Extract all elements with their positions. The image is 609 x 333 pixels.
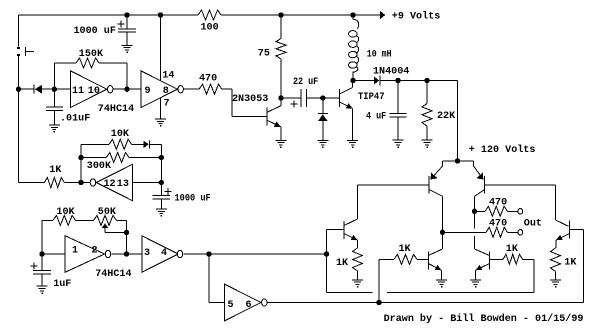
ground R11 (352, 280, 363, 288)
wire R5 top lead (426, 81, 428, 104)
label C3 polarity + (291, 101, 298, 108)
label 1000uF (lower) (175, 194, 211, 205)
svg-text:2N3053: 2N3053 (232, 94, 268, 105)
inductor L1 10mH (349, 15, 359, 81)
svg-text:1: 1 (72, 246, 78, 257)
wire Q6 collector drop upper (474, 196, 476, 228)
wire Q3 base (327, 229, 345, 231)
resistor R7 300K (106, 153, 129, 163)
label 22 uF (293, 77, 318, 88)
diode D1 cathode bar (33, 85, 35, 94)
transistor Q2 emitter (340, 102, 353, 109)
label pin 7 (164, 98, 170, 109)
node junction 470 upper (472, 209, 476, 213)
wire left rail lower (18, 56, 20, 183)
inverter U1C triangle (96, 164, 132, 201)
wire +9V top rail left (19, 14, 199, 16)
svg-text:Drawn by - Bill Bowden - 01/15: Drawn by - Bill Bowden - 01/15/99 (384, 313, 584, 325)
svg-text:TIP47: TIP47 (358, 92, 385, 103)
wire Q8 base (570, 230, 584, 303)
svg-text:74HC14: 74HC14 (95, 269, 131, 280)
ground Q1 emitter (275, 140, 286, 148)
transistor Q1 collector (267, 98, 281, 112)
label pin 6 (246, 300, 252, 311)
wire U1F output rail (268, 302, 584, 304)
wire C5 to gnd (160, 199, 162, 209)
wire D3 to HV rail (380, 80, 458, 82)
ground pin7 (155, 119, 166, 127)
ground Q2 emitter (347, 140, 358, 148)
wire C4 to gnd (397, 117, 399, 140)
wire Q1 emitter to gnd (280, 127, 282, 141)
label 75 (258, 49, 270, 60)
wire to C3 (281, 97, 301, 99)
label 4uF (366, 111, 386, 122)
label .01uF (60, 113, 90, 124)
label pin 10 (88, 86, 100, 97)
transistor Q8 bar (569, 221, 571, 239)
node junction .01uF (52, 87, 56, 91)
resistor R14 1K (394, 254, 417, 264)
node junction U1D in (40, 252, 44, 256)
wire C6 to gnd (41, 274, 43, 286)
svg-text:+ 120 Volts: + 120 Volts (469, 144, 536, 156)
wire R3 to Q1 base (222, 89, 267, 116)
wire D2 to ground (322, 121, 324, 140)
wire Q7 base lead (490, 258, 504, 260)
label 100 (201, 22, 219, 33)
wire Q5 collector drop (442, 196, 444, 249)
resistor R13 470 (486, 227, 508, 237)
transistor Q4 emitter (428, 264, 441, 271)
wire drive to Q3 base (326, 230, 328, 293)
wire R14 leads (379, 258, 428, 260)
svg-text:300K: 300K (87, 161, 112, 172)
label 10mH (367, 50, 392, 61)
wire Q2 emitter to gnd (352, 109, 354, 141)
wire D4 to right leg (150, 143, 162, 145)
label Out (524, 218, 542, 229)
wire 10K-C left leg (42, 220, 53, 254)
resistor R16 1K (551, 248, 561, 271)
label pin 3 (144, 248, 150, 259)
node junction C1 top (125, 13, 129, 17)
svg-text:.01uF: .01uF (60, 113, 90, 124)
transistor Q7 bar (489, 251, 491, 269)
svg-text:14: 14 (162, 71, 174, 82)
resistor R5 22K (422, 104, 432, 126)
label 1K (Q8) (564, 258, 577, 269)
transistor Q5 emitter arrow (431, 173, 438, 180)
transistor Q1 bar (266, 107, 268, 125)
wire R6 to D4 (132, 143, 144, 145)
inverter U1F bubble (262, 299, 267, 306)
capacitor C1 1000uF plates (118, 29, 136, 32)
wire 300K row right (129, 157, 161, 159)
label + 120 Volts (469, 144, 536, 156)
node junction R22K (425, 78, 429, 82)
inverter U1B triangle (141, 71, 177, 108)
inverter U1B bubble (178, 86, 183, 93)
wire left rail upper (18, 15, 20, 47)
resistor R11 1K (353, 248, 363, 271)
node junction HV split (455, 159, 459, 163)
svg-text:10K: 10K (111, 129, 130, 140)
transistor Q3 collector (344, 185, 358, 226)
wire R75 bottom lead (280, 59, 282, 98)
svg-text:470: 470 (489, 219, 507, 230)
transistor Q5 collector (429, 190, 443, 197)
label 10K (111, 129, 130, 140)
svg-text:13: 13 (117, 179, 129, 190)
wire .01uF to ground (53, 110, 55, 125)
svg-text:7: 7 (164, 98, 170, 109)
wire pin7 ground lead (160, 98, 162, 119)
label pin 4 (161, 248, 167, 259)
diode D1 body (35, 85, 42, 94)
node junction left rail (16, 87, 20, 91)
wire Q6 emitter bend (474, 161, 484, 179)
resistor R4 75 (276, 39, 286, 59)
label 470 (199, 74, 217, 85)
label pin 1 (72, 246, 78, 257)
transistor Q7 emitter (476, 264, 490, 271)
resistor R2 150K feedback (76, 58, 99, 68)
wire crossover left (327, 291, 373, 293)
svg-text:2: 2 (92, 246, 98, 257)
inverter U1D bubble (105, 250, 110, 257)
node junction U1D out (124, 252, 128, 256)
node junction C4 (396, 78, 400, 82)
resistor R3 470 (199, 84, 222, 94)
ground R16 (550, 280, 561, 288)
wire PNP emitter bridge (443, 160, 474, 162)
wire R5 to gnd (426, 126, 428, 140)
ground Q4 (436, 280, 447, 288)
node junction L1 bottom (351, 78, 355, 82)
wire U1F input drop (209, 254, 225, 303)
svg-text:1K: 1K (506, 244, 519, 255)
diode D4 cathode bar (149, 140, 151, 148)
terminal upper O (518, 208, 523, 214)
capacitor C3 22uF plates (301, 89, 306, 107)
inverter U1A bubble (108, 86, 113, 93)
resistor R10 50K pot (94, 215, 117, 225)
wire R8 to node (64, 182, 89, 184)
wire Q6 base (485, 184, 556, 186)
label 74HC14 (98, 104, 134, 115)
wire +9V top rail right (221, 14, 380, 16)
resistor R9 10K (53, 215, 75, 225)
node junction R75 top (279, 13, 283, 17)
svg-text:6: 6 (246, 300, 252, 311)
wire U1C input right (133, 182, 162, 184)
wire Q6 collector drop lower (474, 236, 476, 249)
label pin 12 (104, 179, 116, 190)
diode D3 1N4004 body (374, 76, 379, 85)
wire pin14 supply (160, 15, 162, 81)
inverter U1F triangle (225, 284, 261, 321)
label 10K (osc C) (56, 207, 75, 218)
label title (384, 313, 584, 325)
wire Q6 base drop (555, 185, 557, 220)
wire Q4 base corner (378, 259, 380, 302)
wire crossover right (387, 291, 534, 293)
svg-text:1K: 1K (336, 258, 349, 269)
svg-text:50K: 50K (98, 207, 117, 218)
wire C3 to node (306, 97, 322, 99)
wire 470L lead (443, 231, 487, 233)
svg-text:1K: 1K (49, 165, 62, 176)
label 74HC14 (osc C) (95, 269, 131, 280)
transistor Q4 bar (427, 251, 429, 269)
diode D4 body (144, 141, 149, 148)
transistor Q2 collector (340, 81, 353, 95)
node junction drive A (207, 252, 211, 256)
svg-text:470: 470 (199, 74, 217, 85)
node junction osc-B out right (159, 180, 163, 184)
svg-text:4: 4 (161, 248, 167, 259)
svg-text:3: 3 (144, 248, 150, 259)
arrow +9V supply (377, 11, 385, 20)
wire R75 top lead (280, 15, 282, 39)
resistor R15 1K (503, 254, 523, 264)
svg-text:1000 uF: 1000 uF (74, 26, 116, 37)
wire osc-B output row (19, 182, 45, 184)
wire R2 right leg (99, 63, 127, 89)
capacitor C2 .01uF plates (46, 107, 63, 110)
svg-text:10K: 10K (56, 207, 75, 218)
wire Q3 emitter lead (357, 240, 359, 248)
transistor Q6 bar (484, 176, 486, 194)
capacitor C4 4uF plates (390, 113, 407, 116)
wire R10 right leg (117, 220, 127, 254)
wire 10K row left leg (81, 144, 109, 182)
transistor Q3 emitter (344, 234, 358, 241)
wire node to Q2 base (323, 97, 340, 99)
diode D2 body (318, 114, 328, 121)
label C6 polarity + (31, 262, 38, 269)
svg-text:10: 10 (88, 86, 100, 97)
switch S1 actuator (25, 47, 34, 56)
diode D3 cathode bar (379, 76, 381, 86)
diode D2 cathode bar (318, 113, 328, 115)
label 22K (437, 111, 456, 122)
wire U1D input (42, 253, 65, 255)
svg-text:470: 470 (489, 198, 507, 209)
svg-text:1N4004: 1N4004 (373, 67, 409, 78)
wire U1A output (114, 88, 142, 90)
node junction L1 top (351, 13, 355, 17)
svg-text:1uF: 1uF (53, 279, 71, 290)
label pin 11 (72, 86, 84, 97)
svg-text:4 uF: 4 uF (366, 111, 386, 122)
inverter U1C bubble (90, 179, 95, 186)
wire C4 stem (397, 81, 399, 114)
transistor Q6 collector (475, 190, 485, 197)
wire L1 node to D3 (353, 80, 374, 82)
wire input node to gate (54, 88, 70, 90)
wire C1 stem bottom (126, 32, 128, 45)
inverter U1E triangle (142, 236, 178, 273)
node junction drive B (324, 252, 328, 256)
wire osc-A input (19, 88, 35, 90)
wire U1B out (184, 88, 199, 90)
label 150K (79, 49, 104, 60)
wire Q7 emitter gnd (475, 270, 477, 280)
switch S1 contact top (17, 47, 20, 49)
wire C6 stem (41, 254, 43, 271)
label 2N3053 (232, 94, 268, 105)
node junction wiper (124, 230, 128, 234)
capacitor C6 1uF plates (33, 271, 51, 274)
ground D2 (317, 140, 328, 148)
svg-text:74HC14: 74HC14 (98, 104, 134, 115)
label pin 2 (92, 246, 98, 257)
label 1000 uF (74, 26, 116, 37)
svg-text:8: 8 (163, 86, 169, 97)
ground C4 (393, 140, 404, 148)
wire 300K row left (81, 157, 106, 159)
label 1K (49, 165, 62, 176)
wire Q8 emitter lead (555, 240, 557, 248)
ground C1 (122, 45, 133, 53)
resistor R12 470 (485, 206, 508, 216)
label 1K (Q3) (336, 258, 349, 269)
label TIP47 (358, 92, 385, 103)
wire R2 left leg (54, 63, 76, 89)
label 1K (Q7) (506, 244, 519, 255)
wire D1 to input node (42, 88, 54, 90)
label 300K (87, 161, 112, 172)
svg-text:10 mH: 10 mH (367, 50, 392, 61)
ground C2 (49, 125, 60, 133)
label pin 5 (228, 300, 234, 311)
wire U1E out (183, 253, 326, 255)
node junction D2/Q2 base (321, 96, 325, 100)
wire 470U lead (475, 210, 486, 212)
transistor Q6 emitter arrow (477, 173, 484, 180)
wire osc-B right rail (160, 144, 162, 195)
wire Q4 emitter gnd (441, 270, 443, 280)
inverter U1E bubble (177, 250, 182, 257)
transistor Q1 emitter (267, 120, 281, 127)
svg-text:100: 100 (201, 22, 219, 33)
label C5 polarity + (164, 188, 171, 195)
transistor Q4 collector (428, 249, 442, 256)
wire HV rail down (457, 81, 459, 162)
svg-text:22K: 22K (437, 111, 456, 122)
ground Q7 (470, 280, 481, 288)
svg-text:75: 75 (258, 49, 270, 60)
ground C6 (37, 286, 48, 294)
wire R16 gnd (555, 272, 557, 280)
ground R5 (422, 140, 433, 148)
label pin 8 (163, 86, 169, 97)
ground C5 (156, 209, 167, 217)
transistor Q5 bar (428, 176, 430, 194)
wire U1D output (111, 253, 142, 255)
svg-text:+9 Volts: +9 Volts (392, 11, 440, 23)
svg-text:150K: 150K (79, 49, 104, 60)
wire .01uF stem (53, 89, 55, 107)
node junction U1A out (125, 87, 129, 91)
transistor Q7 collector (475, 249, 490, 256)
label 470 (upper) (489, 198, 507, 209)
svg-text:1K: 1K (564, 258, 577, 269)
node junction 300K right (159, 155, 163, 159)
capacitor C5 1000uF plates (153, 196, 170, 199)
wire C1 stem top (126, 15, 128, 29)
wire R15 to corner (523, 259, 535, 292)
svg-text:Out: Out (524, 218, 542, 229)
resistor R1 100 (198, 10, 221, 20)
svg-text:11: 11 (72, 86, 84, 97)
pot wiper arrow (102, 223, 127, 232)
resistor R6 10K (109, 139, 132, 149)
inverter U1D triangle (65, 236, 105, 273)
svg-text:5: 5 (228, 300, 234, 311)
inverter U1A triangle (71, 71, 107, 108)
svg-text:1K: 1K (399, 244, 412, 255)
node junction 470 lower (440, 230, 444, 234)
label 1K (Q4) (399, 244, 412, 255)
svg-text:1000 uF: 1000 uF (175, 194, 211, 205)
label 50K (98, 207, 117, 218)
label 1 uF (53, 279, 71, 290)
wire Q5 emitter bend (431, 161, 443, 179)
transistor Q3 bar (343, 221, 345, 239)
label C1 polarity + (118, 21, 125, 28)
transistor Q8 emitter (556, 234, 570, 241)
svg-text:9: 9 (145, 86, 151, 97)
wire 470U to term (508, 210, 518, 212)
switch S1 contact bottom (17, 54, 20, 56)
node junction Q1 collector (279, 96, 283, 100)
wire 470L to term (508, 231, 518, 233)
svg-text:12: 12 (104, 179, 116, 190)
transistor Q8 collector (556, 220, 569, 226)
label 470 (lower) (489, 219, 507, 230)
resistor R8 1K (44, 178, 64, 188)
wire D2 stem (322, 98, 324, 113)
transistor Q2 TIP47 bar (339, 89, 341, 107)
terminal lower O (518, 229, 523, 235)
wire Q3 collector to Q5 base (358, 184, 430, 186)
node junction 300K left (79, 155, 83, 159)
label pin 14 (162, 71, 174, 82)
label pin 13 (117, 179, 129, 190)
node junction rail B (377, 300, 381, 304)
label pin 9 (145, 86, 151, 97)
svg-text:22 uF: 22 uF (293, 77, 318, 88)
label +9 Volts (392, 11, 440, 23)
label 1N4004 (373, 67, 409, 78)
node junction U1C in (79, 180, 83, 184)
wire R11 to gnd (357, 271, 359, 280)
wire R9 to R10 (76, 219, 94, 221)
node junction pin14 feed (158, 13, 162, 17)
